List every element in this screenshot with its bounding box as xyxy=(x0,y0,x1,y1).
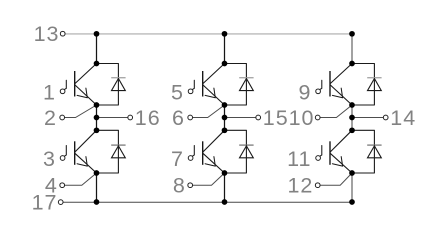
svg-text:9: 9 xyxy=(299,80,312,104)
svg-text:5: 5 xyxy=(171,80,184,104)
svg-text:7: 7 xyxy=(171,147,184,171)
svg-text:14: 14 xyxy=(390,106,416,130)
svg-text:3: 3 xyxy=(43,147,56,171)
svg-text:4: 4 xyxy=(45,174,58,198)
svg-text:16: 16 xyxy=(135,106,161,130)
svg-text:12: 12 xyxy=(287,174,313,198)
svg-text:6: 6 xyxy=(172,106,185,130)
svg-text:10: 10 xyxy=(289,106,315,130)
svg-text:2: 2 xyxy=(44,106,57,130)
svg-text:13: 13 xyxy=(34,22,60,46)
svg-text:15: 15 xyxy=(263,106,289,130)
svg-text:1: 1 xyxy=(43,80,56,104)
svg-text:11: 11 xyxy=(287,147,311,171)
svg-text:8: 8 xyxy=(173,174,186,198)
